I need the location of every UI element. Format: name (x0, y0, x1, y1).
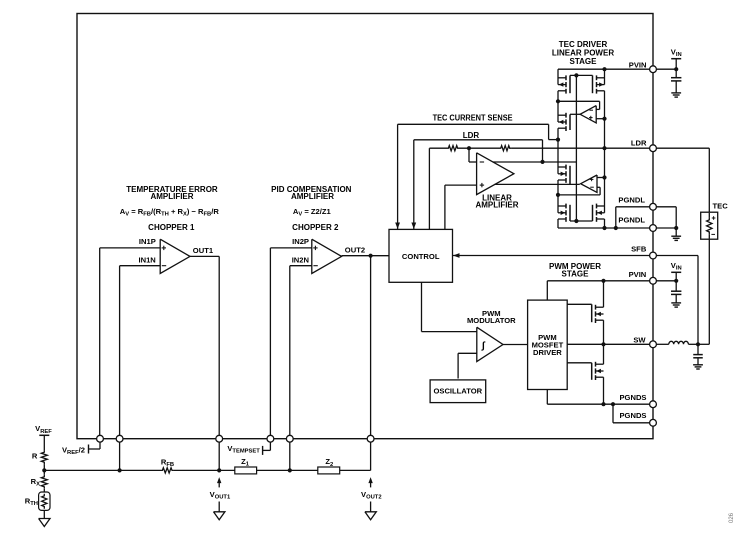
svg-text:CHOPPER 2: CHOPPER 2 (292, 223, 339, 232)
svg-text:CHOPPER 1: CHOPPER 1 (148, 223, 195, 232)
svg-text:CONTROL: CONTROL (402, 252, 440, 261)
svg-text:PGNDS: PGNDS (619, 393, 646, 402)
svg-text:STAGE: STAGE (562, 270, 590, 279)
svg-text:OUT2: OUT2 (345, 246, 365, 255)
svg-text:OSCILLATOR: OSCILLATOR (433, 386, 482, 395)
svg-text:IN1N: IN1N (138, 255, 155, 264)
svg-text:PVIN: PVIN (629, 60, 647, 69)
svg-text:PGNDS: PGNDS (619, 411, 646, 420)
svg-text:MODULATOR: MODULATOR (467, 316, 516, 325)
svg-text:026: 026 (729, 512, 735, 523)
svg-text:TEC CURRENT SENSE: TEC CURRENT SENSE (433, 114, 514, 123)
svg-text:AMPLIFIER: AMPLIFIER (475, 201, 518, 210)
svg-text:OUT1: OUT1 (193, 246, 214, 255)
svg-text:PGNDL: PGNDL (618, 216, 645, 225)
svg-text:TEC: TEC (713, 201, 729, 210)
svg-text:IN2P: IN2P (292, 237, 309, 246)
svg-text:AMPLIFIER: AMPLIFIER (150, 192, 193, 201)
svg-text:AMPLIFIER: AMPLIFIER (291, 192, 334, 201)
svg-text:PGNDL: PGNDL (618, 195, 645, 204)
svg-text:IN2N: IN2N (292, 255, 309, 264)
svg-text:R: R (32, 452, 38, 461)
svg-text:STAGE: STAGE (570, 57, 598, 66)
svg-text:SW: SW (633, 336, 646, 345)
svg-text:SFB: SFB (631, 245, 647, 254)
svg-text:LDR: LDR (631, 139, 647, 148)
svg-text:DRIVER: DRIVER (533, 348, 562, 357)
svg-text:IN1P: IN1P (139, 237, 156, 246)
svg-text:PVIN: PVIN (629, 270, 647, 279)
svg-text:LDR: LDR (463, 131, 480, 140)
